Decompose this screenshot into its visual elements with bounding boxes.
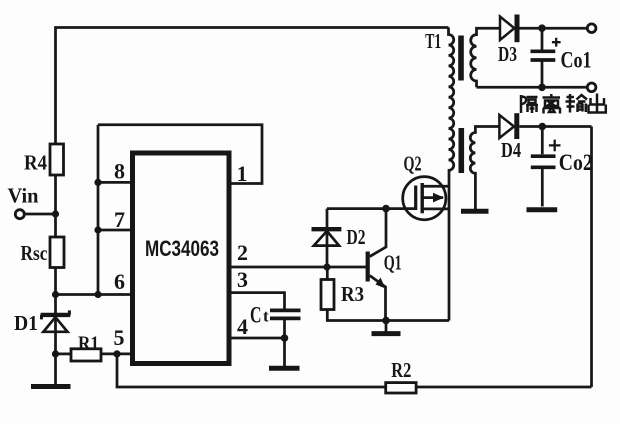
svg-text:D2: D2 xyxy=(347,225,366,249)
svg-text:4: 4 xyxy=(237,314,248,339)
svg-text:Rsc: Rsc xyxy=(21,241,48,265)
svg-text:R1: R1 xyxy=(78,333,99,355)
svg-text:Vin: Vin xyxy=(8,184,39,208)
svg-text:5: 5 xyxy=(114,325,125,350)
svg-text:MC34063: MC34063 xyxy=(145,236,219,261)
svg-text:t: t xyxy=(263,307,269,326)
svg-text:2: 2 xyxy=(237,240,248,265)
svg-text:8: 8 xyxy=(114,159,125,184)
svg-text:Q2: Q2 xyxy=(404,152,422,176)
svg-text:D1: D1 xyxy=(14,311,38,335)
svg-text:D3: D3 xyxy=(498,42,517,66)
svg-text:T1: T1 xyxy=(425,29,441,53)
svg-text:R4: R4 xyxy=(24,151,47,175)
svg-text:1: 1 xyxy=(237,161,248,186)
svg-text:R2: R2 xyxy=(391,358,411,382)
svg-text:Q1: Q1 xyxy=(384,251,402,275)
svg-text:Co2: Co2 xyxy=(559,150,593,175)
svg-text:6: 6 xyxy=(114,269,125,294)
svg-text:R3: R3 xyxy=(341,282,364,306)
svg-text:7: 7 xyxy=(114,207,125,232)
svg-text:D4: D4 xyxy=(501,138,521,162)
svg-text:C: C xyxy=(250,303,262,328)
svg-text:3: 3 xyxy=(237,267,248,292)
svg-text:Co1: Co1 xyxy=(561,48,592,73)
